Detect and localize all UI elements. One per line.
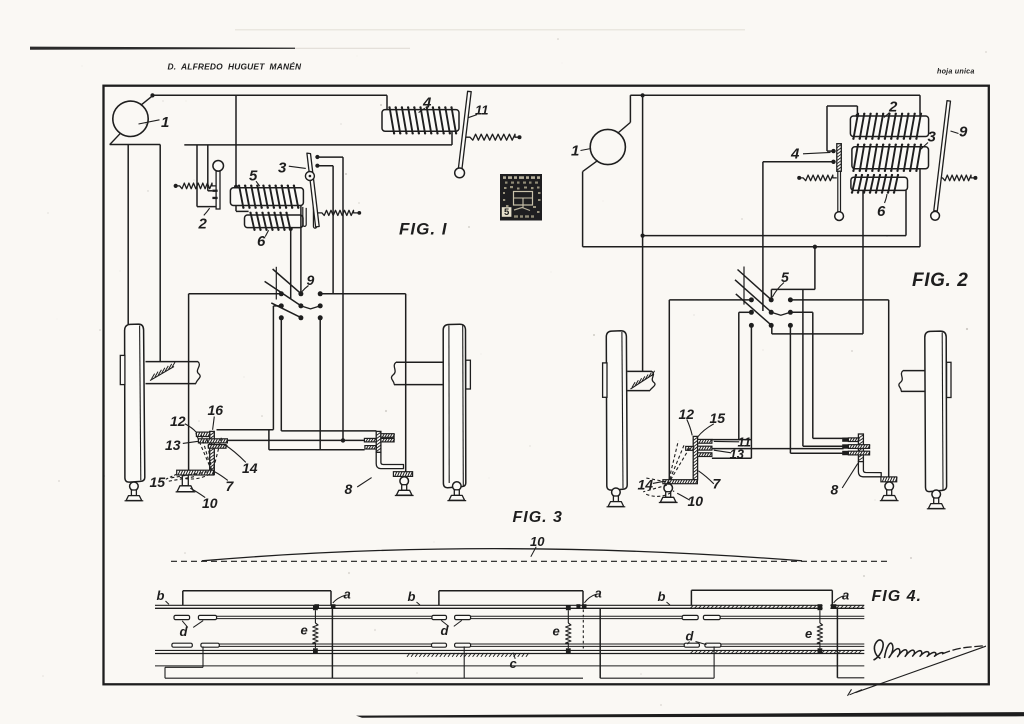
svg-text:14: 14 [242, 460, 258, 476]
svg-text:2: 2 [198, 216, 208, 233]
svg-text:13: 13 [165, 437, 181, 453]
svg-text:e: e [301, 623, 308, 638]
svg-text:a: a [344, 587, 351, 602]
svg-text:3: 3 [928, 129, 937, 146]
svg-text:10: 10 [530, 534, 545, 549]
svg-text:11: 11 [475, 103, 489, 118]
svg-text:1: 1 [161, 114, 169, 131]
svg-text:FIG. 3: FIG. 3 [513, 509, 563, 526]
svg-text:hoja unica: hoja unica [937, 67, 975, 76]
svg-text:5: 5 [781, 269, 789, 285]
svg-text:b: b [157, 588, 165, 603]
svg-text:b: b [408, 589, 416, 604]
svg-text:a: a [595, 586, 602, 601]
svg-text:15: 15 [710, 410, 726, 426]
svg-text:FIG 4.: FIG 4. [872, 588, 922, 605]
svg-text:d: d [686, 629, 695, 644]
svg-text:9: 9 [959, 124, 968, 141]
svg-text:FIG. I: FIG. I [399, 220, 448, 239]
svg-text:14: 14 [638, 477, 654, 493]
svg-text:6: 6 [257, 233, 266, 250]
svg-text:e: e [805, 626, 812, 641]
svg-text:13: 13 [730, 447, 745, 462]
svg-text:4: 4 [790, 146, 800, 163]
svg-text:8: 8 [345, 481, 353, 497]
svg-text:15: 15 [150, 474, 166, 490]
svg-text:5: 5 [504, 207, 510, 218]
svg-text:6: 6 [877, 203, 886, 220]
svg-text:10: 10 [688, 493, 704, 509]
svg-text:7: 7 [226, 478, 235, 494]
svg-text:D. ALFREDO HUGUET MANÉN: D. ALFREDO HUGUET MANÉN [168, 62, 303, 72]
svg-text:b: b [658, 589, 666, 604]
svg-text:12: 12 [170, 413, 186, 429]
svg-text:e: e [553, 624, 560, 639]
svg-text:8: 8 [831, 482, 839, 498]
svg-text:1: 1 [571, 143, 579, 160]
svg-text:FIG. 2: FIG. 2 [912, 270, 968, 291]
svg-text:a: a [842, 588, 849, 603]
svg-text:c: c [510, 656, 518, 671]
svg-text:3: 3 [278, 160, 287, 177]
svg-text:16: 16 [208, 402, 224, 418]
